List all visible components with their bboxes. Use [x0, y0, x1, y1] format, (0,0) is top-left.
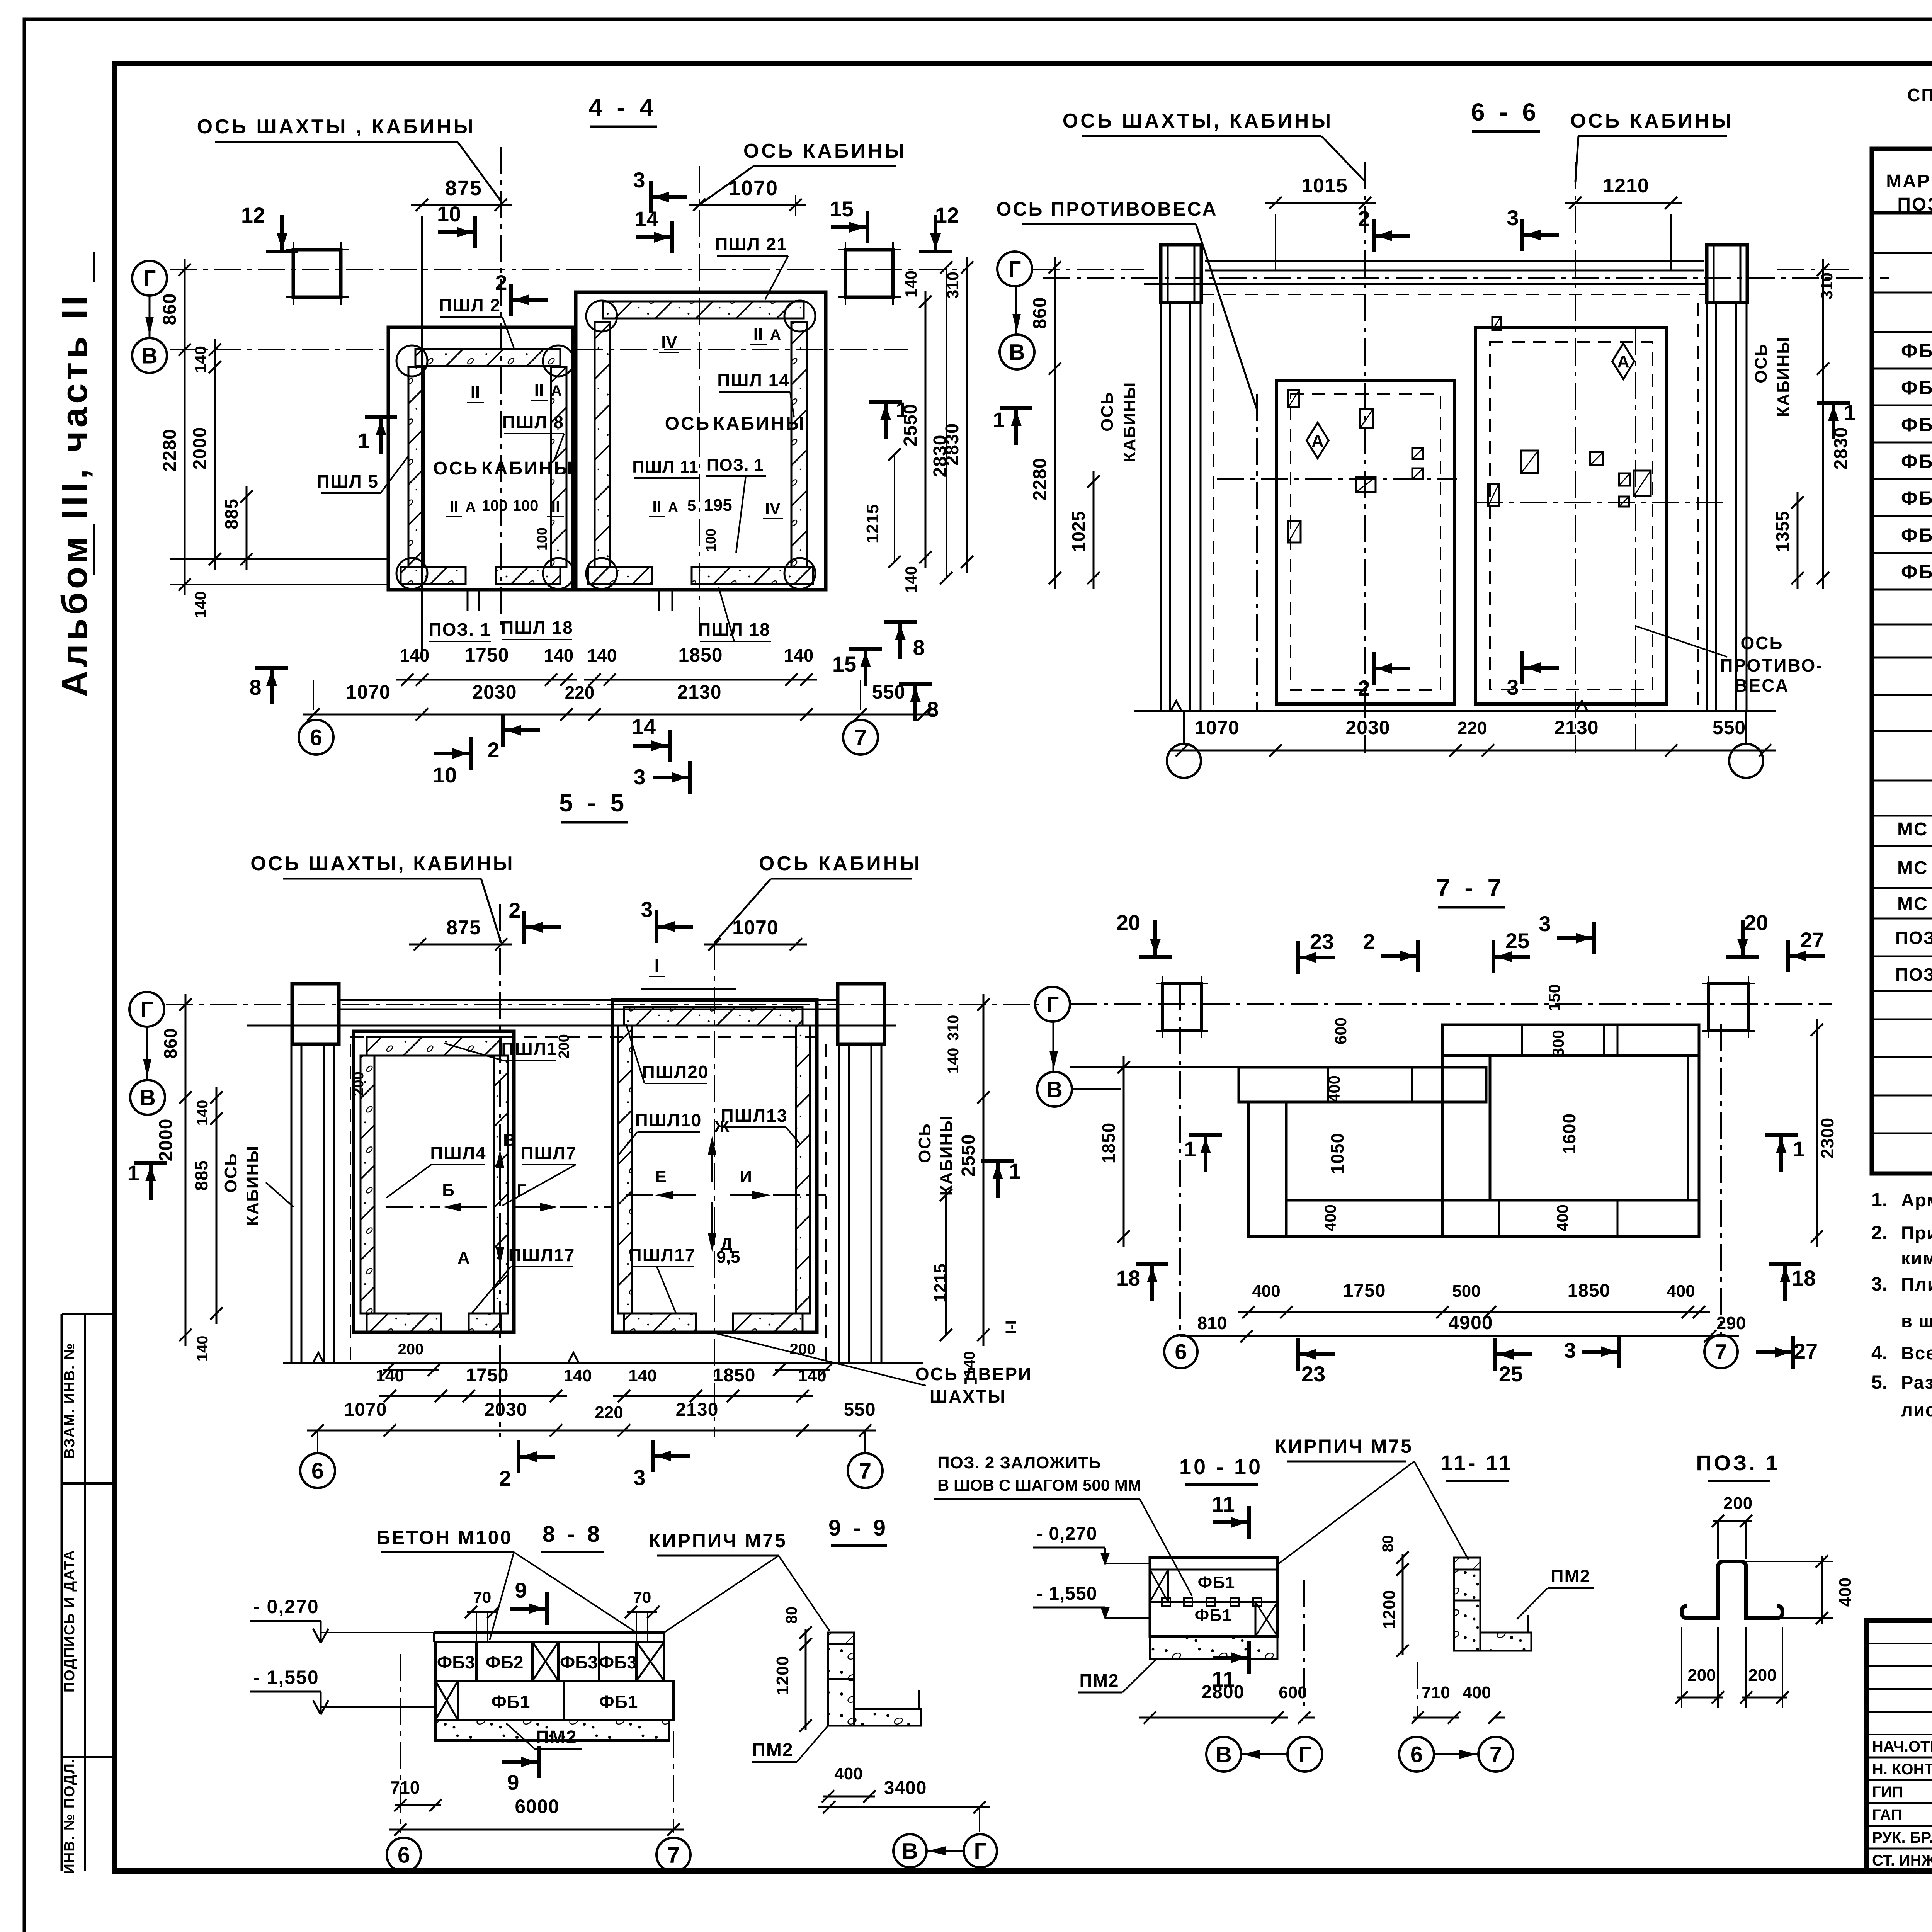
svg-text:300: 300 — [1549, 1030, 1567, 1057]
svg-text:Г: Г — [517, 1181, 527, 1200]
svg-text:НАЧ.ОТП: НАЧ.ОТП — [1872, 1738, 1932, 1755]
svg-text:ФБ3: ФБ3 — [560, 1652, 598, 1672]
svg-text:ПШЛ20: ПШЛ20 — [642, 1062, 709, 1082]
svg-text:1.: 1. — [1871, 1189, 1888, 1211]
svg-text:9: 9 — [507, 1770, 519, 1794]
svg-text:2: 2 — [487, 738, 499, 762]
svg-text:ФБ6: ФБ6 — [1901, 524, 1932, 546]
svg-text:2: 2 — [509, 898, 520, 922]
svg-text:100: 100 — [703, 529, 719, 552]
svg-text:1850: 1850 — [713, 1365, 756, 1386]
svg-text:140: 140 — [563, 1366, 592, 1385]
svg-text:1070: 1070 — [1195, 717, 1239, 738]
svg-text:100: 100 — [534, 527, 550, 551]
svg-text:550: 550 — [1713, 717, 1746, 738]
svg-text:ОСЬ ДВЕРИ: ОСЬ ДВЕРИ — [915, 1364, 1032, 1384]
svg-text:Плиты ПЛ1 и ПЛ2 устанавли: Плиты ПЛ1 и ПЛ2 устанавливается после мо… — [1901, 1274, 1932, 1294]
svg-text:БЕТОН М100: БЕТОН М100 — [376, 1527, 513, 1548]
svg-text:600: 600 — [1332, 1017, 1350, 1044]
svg-text:Д: Д — [720, 1235, 732, 1254]
svg-text:ГИП: ГИП — [1872, 1784, 1903, 1801]
svg-text:12: 12 — [935, 203, 959, 227]
svg-text:3: 3 — [1507, 206, 1519, 230]
svg-text:ФБ2: ФБ2 — [1901, 377, 1932, 398]
svg-text:ФБ2: ФБ2 — [486, 1652, 524, 1672]
svg-text:310: 310 — [1818, 272, 1836, 299]
svg-text:ПМ2: ПМ2 — [752, 1740, 793, 1760]
svg-text:КАБИНЫ: КАБИНЫ — [481, 458, 574, 479]
svg-text:2: 2 — [1358, 206, 1370, 231]
svg-text:1070: 1070 — [729, 177, 778, 200]
svg-text:14: 14 — [634, 207, 658, 231]
svg-text:15: 15 — [832, 652, 856, 676]
svg-text:2130: 2130 — [677, 681, 721, 703]
svg-text:ОСЬ: ОСЬ — [915, 1123, 934, 1163]
svg-text:400: 400 — [1836, 1577, 1855, 1607]
svg-text:18: 18 — [1116, 1266, 1140, 1290]
svg-text:10: 10 — [433, 763, 457, 787]
svg-text:12: 12 — [241, 203, 265, 227]
svg-text:200: 200 — [350, 1071, 367, 1096]
svg-text:6: 6 — [398, 1842, 410, 1867]
svg-text:8: 8 — [927, 697, 939, 721]
svg-text:II: II — [753, 325, 763, 344]
svg-text:ПШЛ 2: ПШЛ 2 — [439, 295, 501, 315]
svg-text:80: 80 — [783, 1607, 800, 1624]
svg-text:1: 1 — [896, 398, 908, 422]
svg-text:ПОЗ.: ПОЗ. — [1897, 194, 1932, 215]
svg-text:ПШЛ 14: ПШЛ 14 — [717, 370, 790, 390]
svg-text:310: 310 — [945, 1015, 962, 1041]
svg-text:6: 6 — [1175, 1340, 1187, 1364]
svg-text:11- 11: 11- 11 — [1440, 1451, 1514, 1475]
svg-text:3: 3 — [633, 765, 645, 789]
svg-text:2300: 2300 — [1817, 1117, 1837, 1158]
svg-text:Альбом III, часть II: Альбом III, часть II — [54, 292, 95, 697]
svg-text:КАБИНЫ: КАБИНЫ — [1120, 382, 1139, 463]
svg-text:400: 400 — [834, 1764, 862, 1783]
svg-text:7: 7 — [859, 1458, 871, 1483]
svg-text:2550: 2550 — [958, 1134, 979, 1177]
svg-text:7: 7 — [667, 1842, 680, 1867]
svg-text:400: 400 — [1463, 1683, 1491, 1702]
svg-text:ПШЛ17: ПШЛ17 — [629, 1245, 696, 1265]
svg-text:9: 9 — [515, 1578, 527, 1602]
svg-text:КАБИНЫ: КАБИНЫ — [937, 1115, 956, 1196]
svg-text:ФБ7: ФБ7 — [1901, 561, 1932, 583]
svg-text:ФБ4: ФБ4 — [1901, 451, 1932, 472]
svg-text:ФБ1: ФБ1 — [1901, 340, 1932, 362]
svg-text:КАБИНЫ: КАБИНЫ — [1774, 337, 1793, 417]
svg-text:6: 6 — [310, 725, 322, 750]
svg-text:I-I: I-I — [1003, 1320, 1020, 1334]
svg-text:1070: 1070 — [346, 681, 390, 703]
svg-text:1015: 1015 — [1301, 175, 1348, 197]
svg-text:ПОДПИСЬ И ДАТА: ПОДПИСЬ И ДАТА — [61, 1549, 78, 1692]
svg-text:ПШЛ4: ПШЛ4 — [430, 1143, 486, 1163]
svg-text:200: 200 — [1723, 1494, 1753, 1513]
svg-text:Г: Г — [1299, 1742, 1311, 1767]
svg-text:200: 200 — [1687, 1666, 1716, 1685]
svg-text:ПМ2: ПМ2 — [536, 1727, 577, 1748]
svg-text:100: 100 — [513, 497, 539, 514]
svg-text:СПЕЦИФИКАЦИЯ К СХЕМАМ: СПЕЦИФИКАЦИЯ К СХЕМАМ РАСПОЛОЖЕНИЯ ЭЛЕМЕ… — [1907, 85, 1932, 105]
svg-text:I: I — [655, 956, 660, 976]
svg-text:1: 1 — [1184, 1137, 1196, 1161]
svg-text:140: 140 — [194, 1100, 211, 1126]
svg-text:ПОЗ. 1: ПОЗ. 1 — [707, 456, 764, 474]
svg-text:ПМ2: ПМ2 — [1551, 1566, 1591, 1586]
svg-text:1025: 1025 — [1068, 511, 1088, 552]
svg-text:140: 140 — [798, 1366, 826, 1385]
svg-text:В: В — [1009, 340, 1025, 365]
svg-text:1215: 1215 — [863, 504, 882, 543]
svg-text:5: 5 — [687, 497, 696, 514]
svg-text:ВЗАМ. ИНВ. №: ВЗАМ. ИНВ. № — [61, 1343, 78, 1459]
svg-text:II: II — [551, 497, 560, 515]
svg-text:1850: 1850 — [678, 644, 723, 666]
svg-text:400: 400 — [1252, 1282, 1280, 1301]
svg-text:2800: 2800 — [1202, 1682, 1245, 1702]
svg-text:1070: 1070 — [344, 1400, 387, 1420]
svg-text:2030: 2030 — [1345, 717, 1390, 738]
svg-text:кими требованиями серии АТ-: кими требованиями серии АТ-7, 00-001(лис… — [1901, 1248, 1932, 1268]
svg-text:II: II — [449, 497, 458, 515]
svg-text:ПШЛ 18: ПШЛ 18 — [698, 619, 770, 639]
svg-text:ФБ3: ФБ3 — [599, 1652, 637, 1672]
svg-text:Арматурная сталь принята по у: Арматурная сталь принята по узлам II и I… — [1901, 1190, 1932, 1210]
svg-text:140: 140 — [194, 1336, 211, 1362]
svg-text:3400: 3400 — [884, 1778, 927, 1798]
svg-text:А: А — [668, 499, 678, 515]
svg-text:ФБ1: ФБ1 — [1195, 1606, 1232, 1625]
svg-text:ФБ1: ФБ1 — [492, 1692, 531, 1712]
svg-text:1355: 1355 — [1772, 511, 1793, 552]
svg-text:4.: 4. — [1871, 1342, 1888, 1364]
svg-text:Г: Г — [143, 266, 156, 291]
svg-text:710: 710 — [1422, 1683, 1450, 1702]
svg-text:СТ. ИНЖ.: СТ. ИНЖ. — [1872, 1852, 1932, 1869]
svg-text:3: 3 — [1564, 1338, 1576, 1362]
svg-text:860: 860 — [160, 293, 180, 325]
svg-text:Ж: Ж — [714, 1117, 730, 1136]
svg-text:Н. КОНТР.: Н. КОНТР. — [1872, 1761, 1932, 1778]
svg-text:2: 2 — [499, 1466, 511, 1490]
svg-text:ПОЗ. 2 ЗАЛОЖИТЬ: ПОЗ. 2 ЗАЛОЖИТЬ — [937, 1453, 1101, 1472]
svg-text:4 - 4: 4 - 4 — [588, 94, 657, 121]
svg-text:ОСЬ ШАХТЫ, КАБИНЫ: ОСЬ ШАХТЫ, КАБИНЫ — [1063, 110, 1333, 132]
svg-text:875: 875 — [446, 917, 481, 939]
svg-text:ПМ2: ПМ2 — [1080, 1670, 1119, 1690]
svg-text:ПШЛ7: ПШЛ7 — [520, 1143, 577, 1163]
svg-text:2000: 2000 — [190, 427, 210, 470]
svg-text:3: 3 — [633, 1465, 645, 1490]
svg-text:25: 25 — [1505, 929, 1529, 953]
svg-text:23: 23 — [1310, 929, 1334, 954]
svg-text:140: 140 — [587, 645, 617, 665]
svg-text:II: II — [652, 497, 661, 515]
svg-text:А: А — [1617, 352, 1629, 371]
svg-text:- 1,550: - 1,550 — [253, 1667, 319, 1688]
svg-text:195: 195 — [704, 496, 732, 515]
svg-text:- 0,270: - 0,270 — [253, 1596, 319, 1617]
svg-text:ФБ1: ФБ1 — [599, 1692, 638, 1712]
svg-text:ФБ3: ФБ3 — [437, 1652, 475, 1672]
svg-text:7: 7 — [854, 725, 867, 750]
svg-text:ПШЛ 18: ПШЛ 18 — [501, 617, 573, 638]
svg-text:ОСЬ: ОСЬ — [1752, 343, 1770, 383]
svg-text:В ШОВ С ШАГОМ 500 ММ: В ШОВ С ШАГОМ 500 ММ — [937, 1476, 1141, 1494]
svg-text:27: 27 — [1794, 1339, 1818, 1363]
svg-text:140: 140 — [902, 566, 920, 593]
svg-text:400: 400 — [1325, 1075, 1343, 1102]
svg-text:IV: IV — [765, 499, 781, 517]
svg-text:600: 600 — [1279, 1683, 1307, 1702]
svg-text:7 - 7: 7 - 7 — [1436, 874, 1505, 902]
svg-text:2830: 2830 — [930, 435, 951, 478]
svg-text:ПШЛ 11: ПШЛ 11 — [632, 457, 698, 476]
svg-text:1: 1 — [993, 408, 1005, 432]
svg-text:В: В — [1046, 1077, 1063, 1102]
svg-text:КАБИНЫ: КАБИНЫ — [243, 1145, 262, 1226]
svg-text:3.: 3. — [1871, 1273, 1888, 1295]
svg-text:10 - 10: 10 - 10 — [1179, 1454, 1263, 1479]
svg-text:РУК. БР.: РУК. БР. — [1872, 1829, 1932, 1846]
svg-text:ПШЛ10: ПШЛ10 — [635, 1110, 702, 1130]
svg-text:8: 8 — [249, 675, 261, 699]
svg-text:- 1,550: - 1,550 — [1037, 1583, 1097, 1604]
svg-text:В: В — [1216, 1742, 1232, 1767]
svg-text:1: 1 — [127, 1161, 139, 1185]
svg-text:27: 27 — [1800, 928, 1824, 952]
svg-text:2030: 2030 — [485, 1400, 527, 1420]
svg-text:1750: 1750 — [464, 644, 509, 666]
svg-text:15: 15 — [830, 197, 854, 221]
svg-text:5.: 5. — [1871, 1371, 1888, 1393]
svg-text:1850: 1850 — [1568, 1281, 1611, 1301]
svg-text:400: 400 — [1667, 1282, 1695, 1301]
svg-text:КАБИНЫ: КАБИНЫ — [713, 413, 806, 434]
svg-text:140: 140 — [628, 1366, 656, 1385]
svg-text:140: 140 — [400, 645, 430, 665]
svg-text:200: 200 — [398, 1341, 424, 1358]
svg-text:550: 550 — [844, 1400, 876, 1420]
svg-text:140: 140 — [376, 1366, 404, 1385]
svg-text:140: 140 — [945, 1048, 962, 1074]
svg-text:400: 400 — [1321, 1204, 1339, 1231]
svg-text:А: А — [551, 383, 562, 400]
svg-text:2130: 2130 — [676, 1400, 719, 1420]
svg-text:220: 220 — [565, 682, 595, 702]
svg-text:2: 2 — [1363, 929, 1375, 954]
svg-text:20: 20 — [1116, 910, 1140, 935]
svg-text:20: 20 — [1744, 910, 1768, 935]
svg-text:в шахте лифта. Плиты устан: в шахте лифта. Плиты устанавливаются зна… — [1901, 1311, 1932, 1331]
svg-text:2280: 2280 — [1030, 458, 1050, 501]
svg-text:2030: 2030 — [472, 681, 517, 703]
svg-text:ПОЗ. 1: ПОЗ. 1 — [1696, 1451, 1780, 1475]
svg-text:МС 2: МС 2 — [1897, 858, 1932, 878]
svg-text:220: 220 — [595, 1403, 623, 1422]
svg-text:1850: 1850 — [1099, 1122, 1119, 1163]
svg-text:100: 100 — [482, 497, 508, 514]
svg-text:ПШЛ 5: ПШЛ 5 — [317, 471, 379, 492]
svg-text:Б: Б — [442, 1181, 454, 1200]
svg-text:ОСЬ ПРОТИВОВЕСА: ОСЬ ПРОТИВОВЕСА — [996, 198, 1218, 220]
svg-text:ОСЬ: ОСЬ — [1098, 391, 1117, 432]
svg-text:ОСЬ ШАХТЫ, КАБИНЫ: ОСЬ ШАХТЫ, КАБИНЫ — [250, 852, 514, 875]
svg-text:ПОЗ. 1: ПОЗ. 1 — [429, 619, 491, 639]
svg-text:ОСЬ: ОСЬ — [1740, 633, 1783, 653]
svg-text:Разрезы 1-1 ... 3-3 см. на: Разрезы 1-1 ... 3-3 см. на листе 56, 12-… — [1901, 1372, 1932, 1393]
svg-text:6: 6 — [1410, 1742, 1423, 1767]
svg-text:1750: 1750 — [466, 1365, 509, 1386]
svg-text:70: 70 — [633, 1588, 651, 1606]
svg-text:1215: 1215 — [931, 1263, 950, 1303]
svg-text:ОСЬ КАБИНЫ: ОСЬ КАБИНЫ — [743, 140, 906, 162]
svg-text:885: 885 — [221, 498, 241, 529]
svg-text:400: 400 — [1553, 1204, 1571, 1231]
svg-text:2280: 2280 — [160, 429, 180, 472]
svg-text:ГАП: ГАП — [1872, 1806, 1902, 1823]
svg-text:2000: 2000 — [156, 1119, 176, 1162]
svg-text:КИРПИЧ М75: КИРПИЧ М75 — [649, 1530, 787, 1551]
svg-text:ПРОТИВО-: ПРОТИВО- — [1720, 655, 1823, 675]
svg-text:1070: 1070 — [732, 917, 779, 939]
svg-text:10: 10 — [437, 202, 461, 226]
svg-text:8: 8 — [913, 635, 925, 660]
svg-text:200: 200 — [556, 1034, 572, 1058]
svg-text:1: 1 — [1844, 400, 1855, 425]
svg-text:ФБ1: ФБ1 — [1198, 1573, 1235, 1592]
svg-text:885: 885 — [191, 1160, 211, 1191]
svg-text:А: А — [770, 327, 781, 344]
svg-text:3: 3 — [1507, 675, 1519, 699]
svg-text:МС 1: МС 1 — [1897, 819, 1932, 840]
svg-text:ОСЬ: ОСЬ — [433, 458, 479, 479]
svg-text:18: 18 — [1792, 1266, 1816, 1290]
svg-text:1200: 1200 — [1380, 1590, 1399, 1629]
svg-text:ОСЬ: ОСЬ — [221, 1153, 240, 1193]
svg-text:1750: 1750 — [1343, 1281, 1386, 1301]
svg-text:11: 11 — [1212, 1492, 1235, 1516]
svg-text:6000: 6000 — [515, 1796, 559, 1817]
svg-text:ОСЬ: ОСЬ — [665, 413, 711, 434]
svg-text:В: В — [902, 1838, 918, 1864]
svg-text:6 - 6: 6 - 6 — [1471, 98, 1540, 126]
svg-text:2: 2 — [495, 270, 507, 295]
svg-text:МАРКА: МАРКА — [1886, 171, 1932, 192]
svg-text:7: 7 — [1715, 1340, 1727, 1364]
svg-text:IV: IV — [661, 333, 677, 352]
svg-text:23: 23 — [1301, 1362, 1325, 1386]
svg-text:500: 500 — [1452, 1282, 1480, 1301]
svg-text:875: 875 — [445, 177, 482, 200]
svg-text:1: 1 — [1009, 1159, 1021, 1183]
svg-text:ПОЗ. 1: ПОЗ. 1 — [1895, 928, 1932, 948]
svg-text:Г: Г — [974, 1838, 987, 1864]
svg-text:Г: Г — [141, 997, 153, 1022]
svg-text:810: 810 — [1197, 1313, 1227, 1333]
svg-text:150: 150 — [1545, 984, 1563, 1011]
svg-text:ПШЛ 21: ПШЛ 21 — [715, 234, 787, 254]
svg-text:В: В — [141, 343, 158, 368]
svg-text:70: 70 — [473, 1588, 492, 1606]
svg-text:ПОЗ. 2: ПОЗ. 2 — [1895, 964, 1932, 985]
svg-text:860: 860 — [1030, 297, 1050, 329]
svg-text:140: 140 — [784, 645, 814, 665]
svg-text:8 - 8: 8 - 8 — [543, 1522, 603, 1547]
svg-text:2130: 2130 — [1554, 717, 1599, 738]
svg-text:ШАХТЫ: ШАХТЫ — [930, 1386, 1006, 1406]
svg-text:А: А — [1311, 432, 1324, 451]
svg-text:1210: 1210 — [1603, 175, 1649, 197]
svg-text:140: 140 — [191, 346, 209, 373]
svg-text:2.: 2. — [1871, 1222, 1888, 1243]
svg-text:2: 2 — [1358, 676, 1370, 700]
svg-text:4900: 4900 — [1448, 1312, 1493, 1333]
svg-text:9 - 9: 9 - 9 — [828, 1515, 889, 1541]
svg-text:140: 140 — [544, 645, 574, 665]
svg-text:ИНВ. № ПОДЛ.: ИНВ. № ПОДЛ. — [61, 1758, 78, 1874]
svg-text:200: 200 — [1748, 1666, 1776, 1685]
svg-text:- 0,270: - 0,270 — [1037, 1524, 1097, 1544]
svg-text:25: 25 — [1499, 1362, 1523, 1386]
svg-text:При монтаже элементов шахты: При монтаже элементов шахты лифта руково… — [1901, 1223, 1932, 1243]
svg-text:Е: Е — [655, 1167, 666, 1186]
svg-text:710: 710 — [390, 1777, 420, 1798]
svg-text:листе 58.: листе 58. — [1901, 1400, 1932, 1420]
svg-text:1050: 1050 — [1327, 1133, 1347, 1174]
svg-text:ПШЛ1: ПШЛ1 — [501, 1039, 557, 1059]
svg-text:ФБ3: ФБ3 — [1901, 414, 1932, 435]
svg-text:II: II — [471, 383, 480, 402]
svg-text:1600: 1600 — [1559, 1113, 1579, 1154]
svg-text:7: 7 — [1490, 1742, 1502, 1767]
svg-text:ОСЬ КАБИНЫ: ОСЬ КАБИНЫ — [1570, 110, 1733, 132]
svg-text:ПШЛ13: ПШЛ13 — [721, 1105, 788, 1126]
svg-text:ПШЛ 8: ПШЛ 8 — [502, 412, 564, 432]
svg-text:220: 220 — [1458, 718, 1487, 738]
svg-text:ФБ5: ФБ5 — [1901, 487, 1932, 509]
svg-text:3: 3 — [641, 897, 653, 922]
svg-text:А: А — [465, 499, 476, 515]
svg-text:И: И — [740, 1167, 752, 1186]
svg-text:ПШЛ17: ПШЛ17 — [509, 1245, 575, 1265]
svg-text:КИРПИЧ М75: КИРПИЧ М75 — [1275, 1435, 1413, 1457]
svg-text:140: 140 — [191, 591, 209, 618]
svg-text:1: 1 — [357, 429, 369, 453]
svg-text:80: 80 — [1379, 1535, 1396, 1553]
svg-text:3: 3 — [633, 168, 645, 192]
svg-text:А: А — [457, 1248, 470, 1267]
svg-text:В: В — [503, 1131, 515, 1150]
svg-text:3: 3 — [1539, 912, 1551, 936]
svg-text:ОСЬ ШАХТЫ , КАБИНЫ: ОСЬ ШАХТЫ , КАБИНЫ — [197, 116, 476, 138]
svg-text:II: II — [534, 381, 544, 400]
svg-text:ВЕСА: ВЕСА — [1735, 675, 1789, 696]
svg-text:МС 3: МС 3 — [1897, 894, 1932, 914]
svg-text:Г: Г — [1009, 257, 1021, 282]
svg-text:6: 6 — [311, 1458, 324, 1483]
svg-text:ОСЬ КАБИНЫ: ОСЬ КАБИНЫ — [759, 852, 922, 875]
svg-text:В: В — [139, 1085, 156, 1110]
svg-text:140: 140 — [902, 270, 920, 298]
svg-text:1200: 1200 — [773, 1656, 792, 1695]
svg-text:14: 14 — [632, 714, 656, 739]
svg-text:5 - 5: 5 - 5 — [559, 789, 628, 817]
svg-text:Все узлы приняты по серии: Все узлы приняты по серии 1.289-2 вып. О… — [1901, 1343, 1932, 1363]
